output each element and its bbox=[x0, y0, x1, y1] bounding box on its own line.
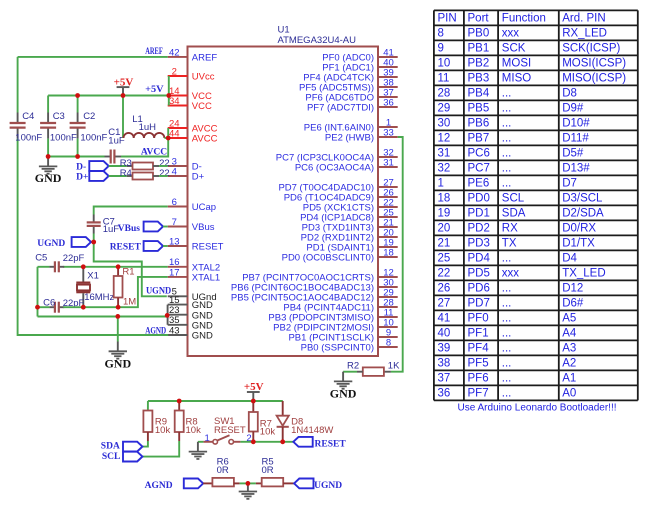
svg-text:...: ... bbox=[502, 328, 512, 340]
diode D8 1N4148W bbox=[253, 401, 333, 442]
svg-text:1M: 1M bbox=[123, 297, 136, 308]
junction RESET row / R7 bbox=[251, 439, 256, 444]
svg-text:XTAL1: XTAL1 bbox=[192, 273, 220, 284]
wire AVCC pins vertical bbox=[167, 128, 169, 138]
connector flag RESET (bottom) bbox=[293, 437, 346, 449]
U1 pin 39 PF4 (right) bbox=[303, 67, 397, 83]
svg-text:xxx: xxx bbox=[502, 268, 520, 280]
svg-text:9: 9 bbox=[438, 43, 444, 55]
svg-text:PD0 (OC0BSCLINT0): PD0 (OC0BSCLINT0) bbox=[282, 253, 374, 264]
wire GND symbol drop bbox=[117, 317, 119, 342]
svg-text:A3: A3 bbox=[562, 343, 576, 355]
connector flag VBus bbox=[118, 222, 168, 235]
U1 pin 11 PB3 (right) bbox=[268, 307, 397, 323]
svg-text:...: ... bbox=[502, 388, 512, 400]
svg-text:...: ... bbox=[502, 88, 512, 100]
wire GND node to R5 bbox=[248, 482, 256, 484]
svg-text:40: 40 bbox=[438, 328, 451, 340]
U1 pin 28 PB4 (right) bbox=[283, 297, 397, 313]
svg-text:22pF: 22pF bbox=[63, 253, 85, 264]
U1 pin 17 XTAL1 (left) bbox=[168, 267, 220, 283]
svg-text:+5V: +5V bbox=[114, 76, 134, 88]
svg-text:8: 8 bbox=[386, 337, 391, 348]
inductor L1 1uH bbox=[124, 114, 169, 138]
U1 pin 2 UVcc (left) bbox=[168, 66, 215, 82]
svg-text:D11#: D11# bbox=[562, 133, 589, 145]
svg-text:18: 18 bbox=[438, 193, 451, 205]
svg-text:10k: 10k bbox=[260, 427, 276, 438]
junction X1 bottom / XTAL1 rail bbox=[81, 305, 86, 310]
wire R8 to SCL flag bbox=[142, 441, 179, 457]
svg-text:AVCC: AVCC bbox=[141, 147, 167, 157]
junction GND rail / GND symbol drop bbox=[115, 314, 120, 319]
svg-text:...: ... bbox=[502, 343, 512, 355]
wire left AREF/AGND vertical rail down to AGND row bbox=[18, 57, 169, 335]
U1 pin 19 PD1 (right) bbox=[306, 237, 397, 253]
svg-text:Port: Port bbox=[468, 13, 490, 25]
svg-text:29: 29 bbox=[438, 103, 451, 115]
wire C7 to UGND node bbox=[93, 234, 95, 243]
svg-text:13: 13 bbox=[169, 236, 180, 247]
svg-text:30: 30 bbox=[438, 118, 451, 130]
power symbol +5V (top) bbox=[114, 76, 134, 95]
wire crystal left GND vertical bbox=[37, 267, 39, 317]
svg-text:MISO(ICSP): MISO(ICSP) bbox=[562, 73, 626, 85]
svg-text:PB0: PB0 bbox=[468, 28, 490, 40]
U1 pin 31 PC6 (right) bbox=[295, 157, 398, 173]
wire R4 to pin 4 bbox=[159, 175, 168, 177]
svg-text:19: 19 bbox=[438, 208, 451, 220]
svg-text:PF0: PF0 bbox=[468, 313, 489, 325]
connector flag SCL bbox=[102, 452, 142, 462]
connector flag D- bbox=[76, 161, 109, 172]
junction RESET row / D8 bbox=[280, 439, 285, 444]
svg-text:AVCC: AVCC bbox=[192, 134, 218, 145]
svg-text:+5V: +5V bbox=[145, 85, 164, 95]
svg-text:22: 22 bbox=[438, 268, 451, 280]
svg-text:...: ... bbox=[502, 133, 512, 145]
svg-text:AGND: AGND bbox=[145, 481, 173, 491]
svg-text:20: 20 bbox=[438, 223, 451, 235]
svg-text:41: 41 bbox=[438, 313, 451, 325]
wire UGND node to UGnd pin 5 bbox=[94, 242, 167, 296]
svg-text:43: 43 bbox=[169, 325, 180, 336]
wire GND pins bus 15-35 bbox=[167, 305, 169, 325]
svg-text:1N4148W: 1N4148W bbox=[291, 425, 333, 436]
svg-text:PB7: PB7 bbox=[468, 133, 490, 145]
svg-text:...: ... bbox=[502, 358, 512, 370]
svg-text:VBus: VBus bbox=[118, 224, 140, 234]
svg-text:D9#: D9# bbox=[562, 103, 584, 115]
junction AVCC pin 44 / L1 / C1 wire bbox=[166, 136, 171, 141]
junction +5V rail / VCC pin 14 bbox=[166, 93, 171, 98]
svg-text:C2: C2 bbox=[83, 111, 95, 122]
svg-text:38: 38 bbox=[438, 358, 451, 370]
svg-text:C4: C4 bbox=[22, 111, 34, 122]
junction rail / R7 / +5V bbox=[251, 399, 256, 404]
connector flag SDA bbox=[101, 442, 143, 452]
U1 pin 1 PE6 (right) bbox=[304, 117, 398, 133]
svg-text:39: 39 bbox=[438, 343, 451, 355]
svg-text:2: 2 bbox=[172, 66, 177, 77]
svg-text:RESET: RESET bbox=[214, 425, 246, 436]
svg-text:...: ... bbox=[502, 178, 512, 190]
svg-text:PF7 (ADC7TDI): PF7 (ADC7TDI) bbox=[307, 103, 374, 114]
capacitor C5 22pF bbox=[35, 253, 84, 273]
svg-text:VCC: VCC bbox=[192, 101, 212, 112]
svg-text:17: 17 bbox=[169, 267, 180, 278]
connector flag UGND (mid) bbox=[37, 237, 91, 249]
svg-text:AGND: AGND bbox=[145, 326, 166, 336]
svg-text:PD1: PD1 bbox=[468, 208, 490, 220]
svg-text:PIN: PIN bbox=[438, 13, 457, 25]
svg-text:A4: A4 bbox=[562, 328, 577, 340]
svg-text:33: 33 bbox=[383, 127, 394, 138]
connector flag AGND bbox=[184, 479, 203, 489]
svg-text:18: 18 bbox=[383, 247, 394, 258]
U1 pin 36 PF7 (right) bbox=[307, 97, 398, 113]
svg-text:TX_LED: TX_LED bbox=[562, 268, 605, 280]
svg-text:10k: 10k bbox=[155, 425, 171, 436]
svg-text:PF5: PF5 bbox=[468, 358, 489, 370]
wire R3 to pin 3 bbox=[159, 165, 168, 167]
U1 pin 26 PD6 (right) bbox=[284, 187, 398, 203]
svg-text:Ard. PIN: Ard. PIN bbox=[562, 13, 605, 25]
U1 pin 30 PB6 (right) bbox=[231, 277, 398, 293]
svg-text:D10#: D10# bbox=[562, 118, 590, 130]
junction rail / R8 bbox=[177, 399, 182, 404]
IC U1 ATMEGA32U4-AU body bbox=[188, 47, 379, 357]
U1 pin 8 PB0 (right) bbox=[301, 337, 398, 353]
svg-text:34: 34 bbox=[169, 96, 180, 107]
junction GND rail / C2 bbox=[75, 154, 80, 159]
junction bottom GND node bbox=[246, 481, 251, 486]
U1 pin 13 RESET (left) bbox=[168, 236, 224, 252]
svg-text:Use Arduino Leonardo Bootloade: Use Arduino Leonardo Bootloader!!! bbox=[458, 403, 617, 414]
svg-text:36: 36 bbox=[383, 97, 394, 108]
svg-text:PB0 (SSPCINT0): PB0 (SSPCINT0) bbox=[301, 343, 374, 354]
svg-text:A5: A5 bbox=[562, 313, 576, 325]
svg-text:SCL: SCL bbox=[502, 193, 525, 205]
svg-text:C5: C5 bbox=[35, 253, 47, 264]
connector flag RESET (mid) bbox=[110, 241, 168, 252]
svg-text:RESET: RESET bbox=[315, 439, 347, 449]
connector flag UGND (bottom) bbox=[294, 479, 313, 489]
wire bottom +5V rail bbox=[148, 400, 283, 402]
U1 pin 4 D+ (left) bbox=[168, 166, 205, 182]
svg-text:...: ... bbox=[502, 313, 512, 325]
svg-text:UGND: UGND bbox=[37, 239, 65, 249]
ground symbol under C3 bbox=[35, 157, 62, 185]
svg-text:25: 25 bbox=[438, 253, 451, 265]
U1 pin 15 GND (left) bbox=[168, 295, 213, 311]
crystal X1 16MHz bbox=[76, 267, 114, 307]
U1 pin 41 PF0 (right) bbox=[322, 47, 397, 63]
svg-text:0R: 0R bbox=[217, 465, 229, 476]
svg-text:RX: RX bbox=[502, 223, 518, 235]
U1 pin 23 GND (left) bbox=[168, 305, 213, 321]
svg-text:32: 32 bbox=[438, 163, 451, 175]
svg-text:RX_LED: RX_LED bbox=[562, 28, 607, 40]
svg-text:R1: R1 bbox=[122, 266, 134, 277]
connector flag D+ bbox=[76, 171, 109, 182]
svg-text:A2: A2 bbox=[562, 358, 576, 370]
wire SW1 pin 1 to GND bbox=[198, 441, 204, 443]
svg-text:PF6: PF6 bbox=[468, 373, 489, 385]
svg-text:28: 28 bbox=[438, 88, 451, 100]
wire AREF net from pin 42 to left rail bbox=[18, 56, 168, 58]
U1 pin 34 VCC (left) bbox=[168, 96, 212, 112]
svg-text:SDA: SDA bbox=[101, 442, 120, 452]
wire R2 to GND bbox=[343, 371, 357, 373]
capacitor C7 1uF bbox=[87, 215, 120, 235]
svg-text:27: 27 bbox=[438, 298, 451, 310]
svg-text:12: 12 bbox=[438, 133, 451, 145]
U1 pin 25 PD4 (right) bbox=[300, 207, 398, 223]
svg-text:D+: D+ bbox=[192, 172, 205, 183]
svg-text:PF1: PF1 bbox=[468, 328, 489, 340]
svg-text:GND: GND bbox=[330, 387, 357, 401]
resistor R6 0R bbox=[203, 456, 239, 486]
svg-text:PC6 (OC3AOC4A): PC6 (OC3AOC4A) bbox=[295, 163, 374, 174]
svg-text:10: 10 bbox=[438, 58, 451, 70]
svg-text:GND: GND bbox=[35, 171, 62, 185]
svg-text:10k: 10k bbox=[186, 425, 202, 436]
wire R6 to GND node bbox=[240, 482, 248, 484]
svg-text:PB4: PB4 bbox=[468, 88, 490, 100]
U1 pin 7 VBus (left) bbox=[168, 217, 215, 233]
svg-text:D5#: D5# bbox=[562, 148, 584, 160]
svg-text:MOSI(ICSP): MOSI(ICSP) bbox=[562, 58, 626, 70]
U1 pin 21 PD3 (right) bbox=[302, 217, 398, 233]
capacitor C1 1uF bbox=[105, 127, 125, 164]
svg-text:D13#: D13# bbox=[562, 163, 590, 175]
svg-text:1uF: 1uF bbox=[103, 224, 120, 235]
wire +5V drop to L1 bbox=[122, 96, 124, 139]
svg-text:44: 44 bbox=[169, 128, 180, 139]
U1 pin 9 PB1 (right) bbox=[288, 327, 397, 343]
U1 pin 14 VCC (left) bbox=[168, 86, 212, 102]
svg-text:8: 8 bbox=[438, 28, 444, 40]
svg-text:PF4: PF4 bbox=[468, 343, 490, 355]
svg-text:...: ... bbox=[502, 253, 512, 265]
svg-text:UVcc: UVcc bbox=[192, 72, 215, 83]
resistor R2 1K bbox=[347, 360, 400, 376]
svg-text:SDA: SDA bbox=[502, 208, 526, 220]
junction R1 top / XTAL2 rail bbox=[116, 264, 121, 269]
U1 pin 5 UGnd (left) bbox=[168, 287, 217, 303]
wire +5V rail to VCC pins bbox=[48, 76, 169, 106]
svg-text:4: 4 bbox=[172, 166, 177, 177]
capacitor C2 100nF with leads bbox=[70, 96, 108, 157]
svg-text:C3: C3 bbox=[53, 111, 65, 122]
resistor R3 22 bbox=[120, 158, 170, 169]
junction +5V rail / C2 bbox=[75, 93, 80, 98]
junction R1 bottom / XTAL1 rail bbox=[116, 305, 121, 310]
U1 pin 20 PD2 (right) bbox=[301, 227, 398, 243]
U1 pin 27 PD7 (right) bbox=[278, 177, 397, 193]
svg-text:UGND: UGND bbox=[314, 481, 342, 491]
junction GND rail / C3 / GND symbol bbox=[46, 154, 51, 159]
svg-text:PD7: PD7 bbox=[468, 298, 490, 310]
U1 pin 42 AREF (left) bbox=[168, 47, 218, 63]
svg-text:PD2: PD2 bbox=[468, 223, 490, 235]
U1 pin 3 D- (left) bbox=[168, 156, 202, 172]
svg-text:UGND: UGND bbox=[146, 287, 171, 297]
svg-text:21: 21 bbox=[438, 238, 451, 250]
svg-text:GND: GND bbox=[104, 356, 131, 370]
svg-text:31: 31 bbox=[383, 157, 394, 168]
resistor R7 10k bbox=[249, 401, 276, 442]
svg-text:7: 7 bbox=[172, 217, 177, 228]
ground symbol at SW1 bbox=[189, 442, 207, 459]
svg-text:100nF: 100nF bbox=[15, 132, 42, 143]
wire GND rail to pin 23 bbox=[38, 315, 168, 317]
wire AVCC net from C1 to pin 44 bbox=[121, 138, 168, 157]
svg-text:VBus: VBus bbox=[192, 222, 215, 233]
svg-text:SCK(ICSP): SCK(ICSP) bbox=[562, 43, 620, 55]
wire SW1 pin 2 to RESET row bbox=[240, 441, 253, 443]
U1 pin 16 XTAL2 (left) bbox=[168, 257, 220, 273]
svg-text:D-: D- bbox=[76, 162, 86, 172]
U1 pin 43 GND (left) bbox=[168, 325, 213, 341]
svg-text:RESET: RESET bbox=[192, 242, 224, 253]
svg-text:42: 42 bbox=[169, 47, 180, 58]
svg-text:D4: D4 bbox=[562, 253, 577, 265]
ground symbol mid bbox=[104, 342, 131, 371]
U1 pin 32 PC7 (right) bbox=[276, 147, 398, 163]
svg-text:PC6: PC6 bbox=[468, 148, 490, 160]
svg-text:1uH: 1uH bbox=[139, 122, 157, 133]
svg-text:X1: X1 bbox=[87, 270, 99, 281]
svg-text:PC7: PC7 bbox=[468, 163, 490, 175]
U1 pin 40 PF1 (right) bbox=[322, 57, 397, 73]
junction C6 left / GND vertical bbox=[35, 305, 40, 310]
resistor R8 10k bbox=[175, 401, 201, 441]
junction GND rail / pin 23 bbox=[165, 313, 170, 318]
svg-text:D6#: D6# bbox=[562, 298, 584, 310]
pin mapping table bbox=[434, 10, 638, 400]
U1 pin 29 PB5 (right) bbox=[231, 287, 398, 303]
svg-text:D8: D8 bbox=[562, 88, 577, 100]
wire D+ to R4 bbox=[109, 175, 127, 177]
svg-text:A1: A1 bbox=[562, 373, 576, 385]
U1 pin 37 PF6 (right) bbox=[305, 87, 397, 103]
svg-text:100nF: 100nF bbox=[50, 132, 77, 143]
U1 pin 24 AVCC (left) bbox=[168, 118, 218, 134]
svg-text:31: 31 bbox=[438, 148, 451, 160]
svg-text:36: 36 bbox=[438, 388, 451, 400]
svg-text:GND: GND bbox=[192, 331, 213, 342]
power symbol +5V (bottom) bbox=[244, 381, 264, 401]
U1 pin 22 PD5 (right) bbox=[303, 197, 398, 213]
wire UCap pin 6 to C7 bbox=[94, 207, 168, 215]
resistor R5 0R bbox=[256, 456, 294, 486]
svg-text:xxx: xxx bbox=[502, 28, 520, 40]
svg-text:PE6: PE6 bbox=[468, 178, 490, 190]
svg-text:26: 26 bbox=[438, 283, 451, 295]
svg-text:MOSI: MOSI bbox=[502, 58, 531, 70]
junction +5V rail / +5V symbol bbox=[121, 93, 126, 98]
svg-text:PB2: PB2 bbox=[468, 58, 490, 70]
svg-text:11: 11 bbox=[438, 73, 450, 85]
svg-text:...: ... bbox=[502, 283, 512, 295]
capacitor C3 100nF with leads bbox=[40, 96, 77, 157]
resistor R4 22 bbox=[120, 168, 170, 179]
svg-text:22: 22 bbox=[159, 168, 170, 179]
svg-text:D+: D+ bbox=[76, 173, 88, 183]
U1 pin 6 UCap (left) bbox=[168, 197, 216, 213]
svg-text:UCap: UCap bbox=[192, 202, 216, 213]
svg-text:AREF: AREF bbox=[145, 47, 163, 57]
svg-text:D0/RX: D0/RX bbox=[562, 223, 596, 235]
svg-text:37: 37 bbox=[438, 373, 451, 385]
svg-text:PB5: PB5 bbox=[468, 103, 490, 115]
wire XTAL2 rail (C5/X1/R1 top) to pin 16 bbox=[38, 266, 168, 268]
svg-text:D2/SDA: D2/SDA bbox=[562, 208, 604, 220]
svg-text:PF7: PF7 bbox=[468, 388, 489, 400]
svg-text:TX: TX bbox=[502, 238, 517, 250]
svg-text:PD3: PD3 bbox=[468, 238, 490, 250]
svg-text:D12: D12 bbox=[562, 283, 583, 295]
svg-text:...: ... bbox=[502, 373, 512, 385]
switch SW1 RESET bbox=[203, 416, 251, 444]
svg-text:1: 1 bbox=[438, 178, 444, 190]
U1 pin 38 PF5 (right) bbox=[299, 77, 398, 93]
capacitor C6 22pF bbox=[43, 297, 84, 312]
U1 pin 35 GND (left) bbox=[168, 315, 213, 331]
capacitor C4 100nF bbox=[10, 111, 43, 143]
svg-text:PD6: PD6 bbox=[468, 283, 490, 295]
svg-text:D1/TX: D1/TX bbox=[562, 238, 595, 250]
U1 pin 18 PD0 (right) bbox=[282, 247, 398, 263]
svg-text:MISO: MISO bbox=[502, 73, 531, 85]
svg-text:SCK: SCK bbox=[502, 43, 526, 55]
wire RESET row bbox=[253, 441, 293, 443]
wire GND rail under C3/C2 to C1 bbox=[48, 156, 104, 158]
svg-text:PB3: PB3 bbox=[468, 73, 490, 85]
svg-text:100nF: 100nF bbox=[80, 132, 107, 143]
U1 pin 44 AVCC (left) bbox=[168, 128, 218, 144]
svg-text:PD4: PD4 bbox=[468, 253, 491, 265]
svg-text:ATMEGA32U4-AU: ATMEGA32U4-AU bbox=[278, 35, 357, 46]
svg-text:Function: Function bbox=[502, 13, 546, 25]
wire R9 to SDA flag bbox=[142, 441, 148, 447]
U1 pin 33 PE2 (right) bbox=[325, 127, 398, 143]
svg-text:...: ... bbox=[502, 163, 512, 175]
svg-text:...: ... bbox=[502, 298, 512, 310]
svg-text:0R: 0R bbox=[262, 465, 274, 476]
svg-text:...: ... bbox=[502, 118, 512, 130]
wire PE2 pin 33 down right side to R2 bbox=[391, 137, 403, 372]
ground symbol bottom bbox=[239, 483, 257, 498]
junction UGND node under C7 bbox=[91, 240, 96, 245]
wire D- to R3 bbox=[109, 165, 127, 167]
wire XTAL1 rail (C6/X1/R1 bottom) to pin 17 bbox=[38, 277, 168, 307]
svg-text:1K: 1K bbox=[388, 360, 400, 371]
resistor R1 1M bbox=[114, 266, 137, 307]
svg-text:+5V: +5V bbox=[244, 381, 264, 393]
U1 pin 12 PB7 (right) bbox=[242, 267, 398, 283]
svg-text:16MHz: 16MHz bbox=[84, 292, 114, 303]
resistor R9 10k bbox=[143, 401, 170, 441]
svg-text:AREF: AREF bbox=[192, 53, 218, 64]
svg-text:R2: R2 bbox=[347, 360, 359, 371]
svg-text:D3/SCL: D3/SCL bbox=[562, 193, 603, 205]
svg-text:...: ... bbox=[502, 148, 512, 160]
ground symbol at R2 bbox=[330, 372, 357, 401]
svg-text:PD0: PD0 bbox=[468, 193, 490, 205]
